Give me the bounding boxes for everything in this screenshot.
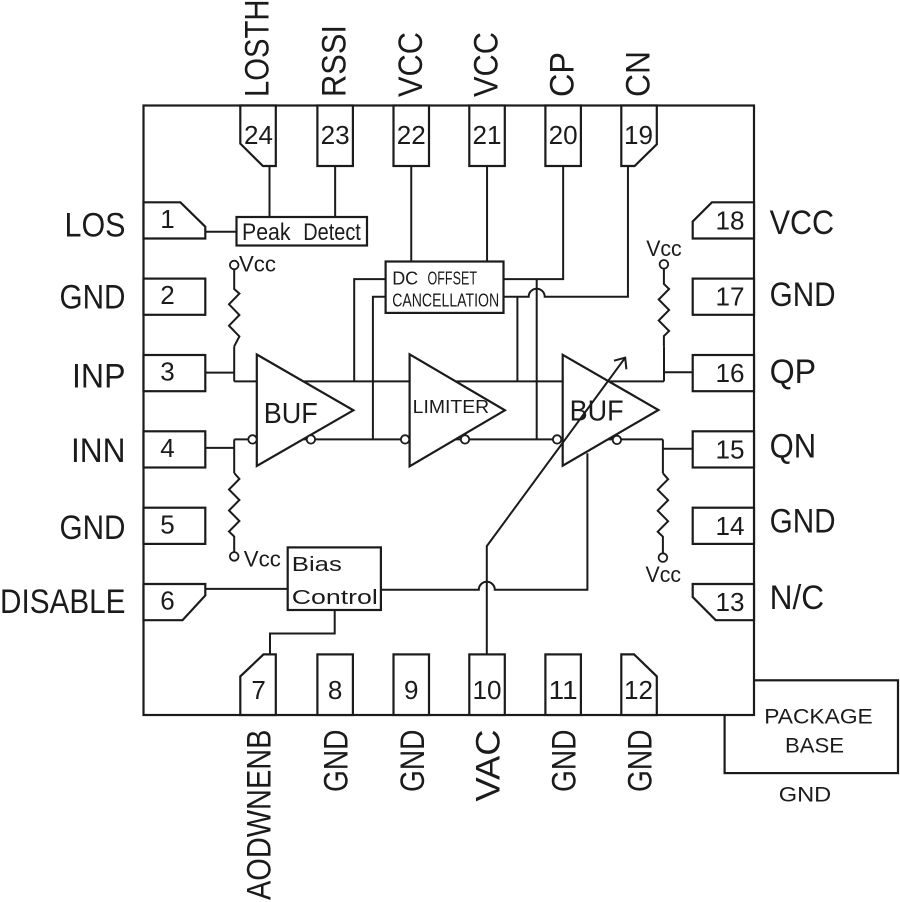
svg-text:VAC: VAC: [470, 730, 508, 802]
wire R3 to QP output rail: [663, 346, 665, 381]
pin 3 (INP): [144, 355, 206, 391]
pin 5 (GND): [144, 508, 206, 544]
svg-text:Vcc: Vcc: [239, 252, 276, 277]
svg-text:2: 2: [160, 280, 174, 310]
wire VAC (pin 10) gain-control line with arrow shaft: [487, 358, 625, 655]
svg-text:4: 4: [160, 433, 174, 463]
wire upper signal rail: [234, 380, 664, 382]
wire junction x=536.7 down to lower rail: [536, 279, 538, 439]
wire DC offset left output 1 to upper rail: [354, 279, 385, 381]
wire lower signal rail: [234, 438, 663, 440]
wire pin 1 to peak detect: [205, 231, 236, 233]
svg-text:QP: QP: [770, 353, 817, 391]
pin 9 (GND): [394, 654, 430, 715]
svg-text:GND: GND: [60, 279, 126, 317]
pin 4 (INN): [144, 431, 206, 467]
resistor R4 (QN pull-down): [658, 473, 668, 553]
svg-text:DISABLE: DISABLE: [0, 583, 126, 621]
Vcc terminal of R3: [660, 260, 669, 269]
pin 11 (GND): [545, 654, 581, 715]
pin 22 (VCC): [394, 106, 430, 167]
pin 7 (AODWNENB): [240, 654, 275, 715]
output buffer BUF2 (variable gain): [563, 355, 659, 466]
pin 16 (QP): [693, 355, 754, 391]
svg-text:VCC: VCC: [392, 32, 430, 97]
wire pin 3 to input rail: [205, 372, 234, 374]
svg-text:20: 20: [549, 120, 578, 150]
buffer amplifier BUF1 (input buffer): [257, 355, 354, 467]
pin 2 (GND): [144, 279, 206, 315]
wire QP to pin 16: [664, 371, 693, 373]
svg-text:24: 24: [244, 120, 273, 150]
wire bias control to pin 7: [270, 610, 335, 654]
svg-text:Detect: Detect: [303, 219, 361, 246]
svg-text:AODWNENB: AODWNENB: [241, 730, 279, 901]
svg-text:16: 16: [716, 358, 745, 388]
svg-text:8: 8: [328, 675, 342, 705]
svg-text:CP: CP: [544, 52, 582, 97]
svg-text:15: 15: [716, 434, 745, 464]
svg-text:9: 9: [404, 675, 418, 705]
svg-text:6: 6: [160, 586, 174, 616]
svg-text:GND: GND: [770, 503, 836, 541]
wire pin 6 to bias control: [205, 588, 288, 590]
svg-text:Peak: Peak: [242, 219, 291, 246]
svg-text:17: 17: [716, 282, 745, 312]
svg-text:19: 19: [624, 120, 653, 150]
wire pin 21 to DC offset block: [486, 166, 488, 262]
package outline (24-pin QFN body): [144, 106, 755, 716]
svg-text:11: 11: [549, 675, 578, 705]
wire DC offset left output 2 to lower rail: [373, 297, 386, 440]
Vcc terminal of R2: [230, 552, 239, 561]
coupling bubble J3 on lower rail: [401, 435, 409, 443]
svg-text:PACKAGE: PACKAGE: [764, 706, 873, 729]
svg-text:3: 3: [160, 357, 174, 387]
resistor R3 (QP pull-up): [659, 269, 669, 347]
svg-text:23: 23: [321, 120, 350, 150]
resistor R2 (input pull-down, pin 4 side): [229, 473, 239, 552]
bias control block: [288, 547, 381, 610]
Vcc terminal of R1: [230, 261, 239, 270]
svg-text:Vcc: Vcc: [646, 562, 682, 587]
svg-text:N/C: N/C: [770, 579, 825, 617]
svg-text:VCC: VCC: [468, 32, 506, 97]
svg-text:Vcc: Vcc: [244, 547, 281, 572]
wire DC offset output 1 to pin 20 (CP): [504, 166, 564, 279]
pin 19 (CN): [621, 106, 657, 167]
svg-text:14: 14: [716, 511, 745, 541]
svg-text:10: 10: [473, 675, 502, 705]
svg-text:CANCELLATION: CANCELLATION: [392, 290, 499, 310]
svg-text:GND: GND: [779, 784, 832, 807]
svg-text:GND: GND: [394, 730, 432, 793]
resistor R1 (input pull-up, pin 3 side): [229, 269, 239, 346]
package base pad: [725, 680, 898, 773]
svg-text:BUF: BUF: [264, 398, 318, 430]
pin 15 (QN): [693, 431, 754, 467]
pin 14 (GND): [693, 508, 754, 544]
svg-text:5: 5: [160, 509, 174, 539]
svg-text:VCC: VCC: [770, 204, 835, 242]
pin 20 (CP): [545, 106, 581, 167]
wire DC offset output 2 to pin 19 (CN) with hop: [504, 166, 628, 297]
wire pin 4 to lower rail: [205, 447, 234, 449]
wire pin 23 to peak detect: [334, 166, 336, 217]
svg-text:QN: QN: [770, 428, 817, 466]
wire junction x=517.4 down to upper rail: [516, 297, 518, 382]
pin 17 (GND): [693, 279, 754, 315]
svg-text:INP: INP: [72, 358, 126, 396]
pin 18 (VCC): [693, 202, 754, 238]
svg-text:Control: Control: [292, 587, 378, 609]
svg-text:GND: GND: [318, 730, 356, 793]
svg-text:DC: DC: [392, 269, 418, 289]
coupling bubble J2 on lower rail: [307, 435, 315, 443]
svg-text:LOS: LOS: [65, 206, 126, 244]
svg-text:12: 12: [624, 675, 653, 705]
svg-text:LIMITER: LIMITER: [413, 397, 490, 417]
svg-text:INN: INN: [71, 432, 126, 470]
coupling bubble J4 on lower rail: [461, 435, 469, 443]
svg-text:21: 21: [473, 120, 502, 150]
svg-text:13: 13: [716, 587, 745, 617]
gain-control arrowhead: [614, 358, 626, 370]
pin 8 (GND): [317, 654, 353, 715]
svg-text:Vcc: Vcc: [646, 236, 682, 261]
pin 12 (GND): [621, 654, 657, 715]
wire pin 22 to DC offset block: [410, 166, 412, 262]
peak detect block: [237, 217, 368, 246]
DC offset cancellation block: [386, 262, 504, 313]
coupling bubble J5 on lower rail: [553, 435, 561, 443]
pin 1 (LOS): [144, 202, 206, 238]
coupling bubble J1 on lower rail: [248, 435, 256, 443]
svg-text:GND: GND: [546, 730, 584, 793]
svg-text:7: 7: [251, 675, 265, 705]
pin 21 (VCC): [469, 106, 505, 167]
wire QN to pin 15: [663, 448, 693, 450]
svg-text:BASE: BASE: [785, 735, 844, 758]
wire QN rail to resistor R4: [662, 439, 664, 473]
svg-text:Bias: Bias: [292, 554, 342, 576]
Vcc terminal of R4: [659, 553, 668, 562]
pin 10 (VAC): [469, 654, 505, 715]
svg-text:CN: CN: [620, 51, 658, 97]
svg-text:RSSI: RSSI: [316, 25, 354, 97]
wire lower rail to resistor R2: [233, 439, 235, 473]
svg-text:18: 18: [716, 205, 745, 235]
svg-text:22: 22: [397, 120, 426, 150]
pin 23 (RSSI): [317, 106, 353, 167]
limiting amplifier LIMITER: [410, 354, 505, 466]
wire bias control to BUF2 bottom slope with hop over VAC line: [381, 453, 588, 590]
svg-text:1: 1: [160, 204, 174, 234]
wire R1 lead to upper rail: [233, 346, 235, 381]
svg-text:LOSTH: LOSTH: [239, 0, 277, 97]
pin 24 (LOSTH): [240, 106, 275, 167]
wire pin 24 to peak detect: [269, 166, 271, 217]
svg-text:OFFSET: OFFSET: [428, 269, 478, 289]
coupling bubble J6 on lower rail: [613, 436, 621, 444]
pin 13 (N/C): [693, 584, 754, 620]
pin 6 (DISABLE): [144, 584, 206, 620]
svg-text:GND: GND: [60, 509, 126, 547]
svg-text:GND: GND: [770, 276, 836, 314]
svg-text:GND: GND: [622, 730, 660, 793]
